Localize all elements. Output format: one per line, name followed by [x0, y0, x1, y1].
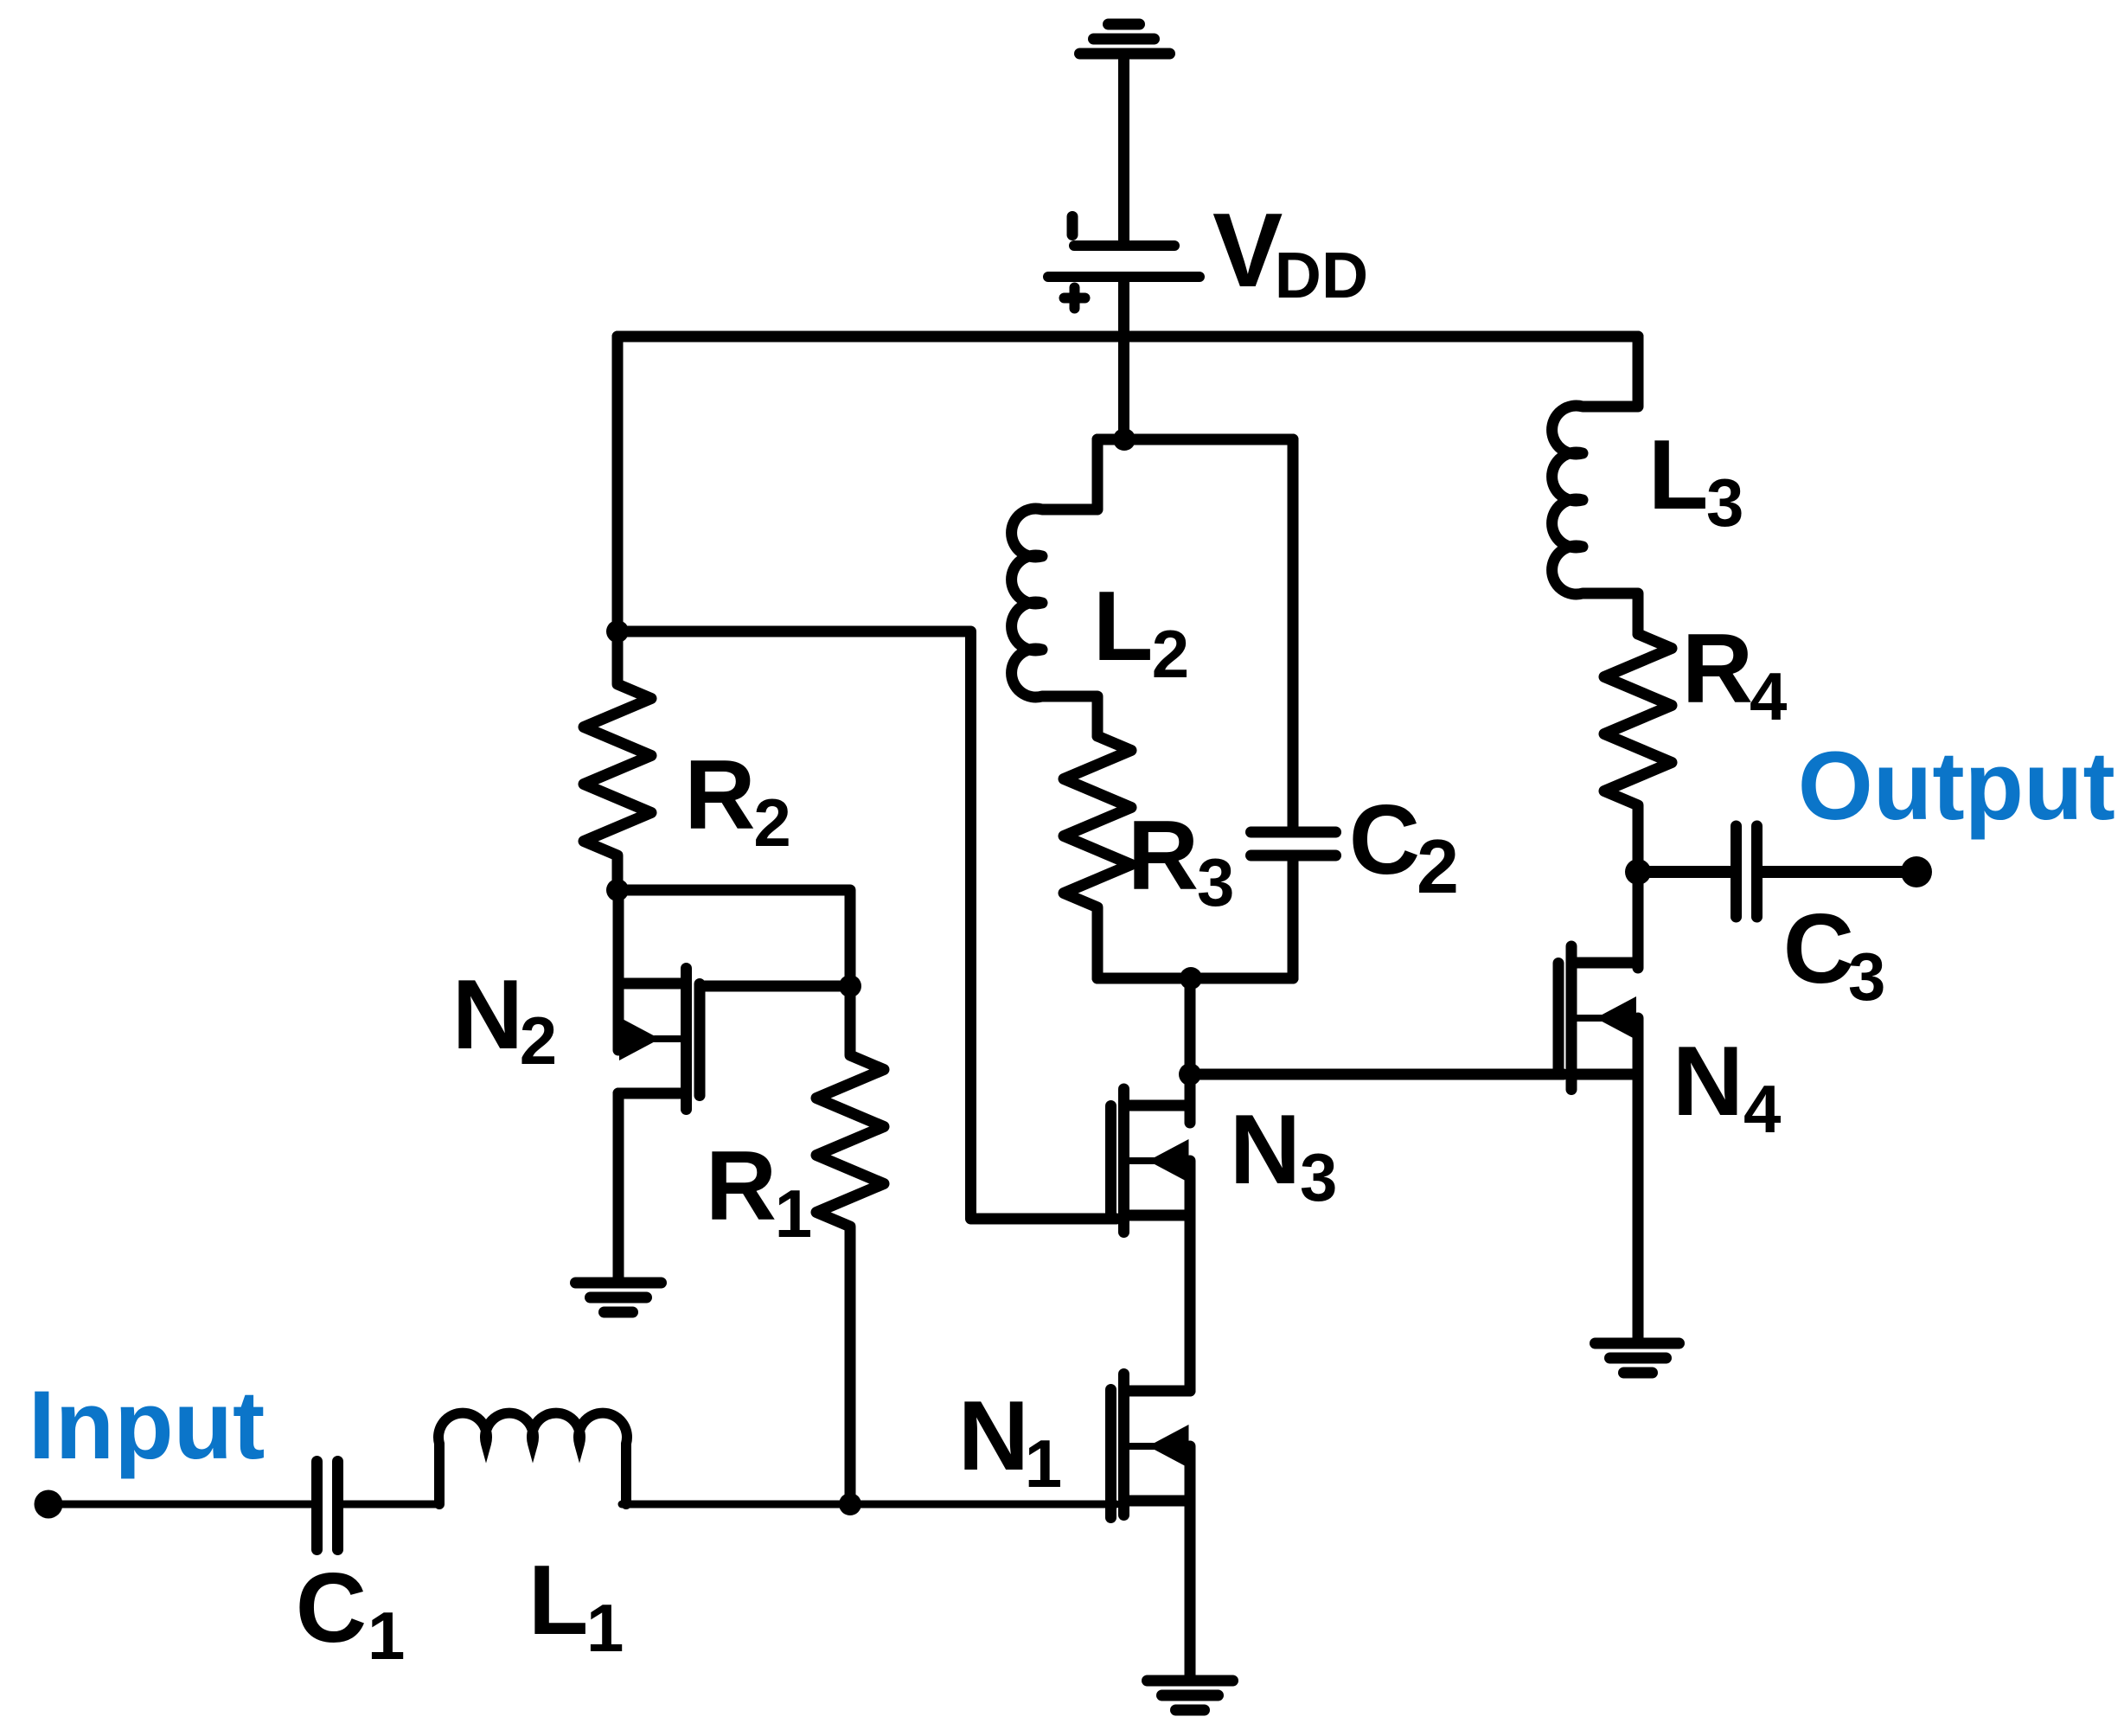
wire N2 gate loop — [617, 890, 850, 986]
ground (N1 source) — [1148, 1681, 1233, 1710]
svg-text:3: 3 — [1706, 464, 1743, 541]
wire C1 to L1 — [342, 1501, 438, 1509]
svg-text:R: R — [1128, 801, 1199, 911]
wire tank top — [1097, 434, 1293, 445]
svg-text:L: L — [1648, 420, 1709, 530]
inductor L3 — [1552, 336, 1638, 634]
wire tank bottom — [1097, 973, 1293, 984]
node N3 drain — [1179, 1063, 1201, 1086]
node tank top — [1113, 428, 1136, 451]
output terminal — [1901, 856, 1932, 887]
ground (N4 source) — [1596, 1343, 1679, 1373]
wire node A to N3 gate — [617, 631, 1116, 1219]
svg-text:3: 3 — [1848, 938, 1885, 1015]
resistor R4 — [1604, 634, 1672, 872]
battery VDD — [1048, 217, 1200, 309]
wire C3 to output — [1762, 866, 1916, 878]
svg-text:3: 3 — [1300, 1139, 1337, 1215]
transistor N3 — [1111, 978, 1191, 1233]
svg-text:1: 1 — [368, 1598, 405, 1674]
svg-text:N: N — [1230, 1095, 1301, 1205]
N3 body arrow — [1148, 1139, 1189, 1182]
capacitor C1 — [317, 1462, 338, 1550]
ground (top power ground, inverted) — [1080, 24, 1170, 242]
N1 body arrow — [1148, 1425, 1189, 1468]
resistor R1 — [816, 986, 884, 1504]
svg-text:R: R — [684, 740, 755, 850]
svg-text:C: C — [1349, 785, 1420, 895]
input terminal — [35, 1490, 63, 1519]
svg-text:4: 4 — [1743, 1071, 1781, 1147]
node tank bottom — [1180, 967, 1202, 990]
wire L1 to N1 gate — [622, 1501, 1116, 1509]
ground (N2 source) — [576, 1283, 662, 1312]
transistor N2 (mirrored NMOS) — [618, 890, 700, 1283]
svg-text:R: R — [706, 1131, 777, 1241]
wire top rail — [617, 331, 1638, 343]
svg-text:3: 3 — [1197, 844, 1234, 920]
node A — [606, 620, 629, 643]
svg-text:C: C — [1783, 894, 1854, 1004]
wire N3 source to N1 drain — [1185, 1161, 1196, 1391]
wire N3 drain to N4 gate — [1190, 1069, 1564, 1080]
svg-text:V: V — [1212, 191, 1283, 309]
inductor L2 — [1012, 439, 1124, 736]
N2 body arrow — [619, 1017, 660, 1060]
svg-text:C: C — [296, 1553, 367, 1663]
wire junction to C3 — [1638, 866, 1731, 878]
wire N4 drain — [1633, 872, 1644, 968]
svg-text:Output: Output — [1798, 732, 2115, 840]
svg-text:R: R — [1682, 614, 1753, 724]
svg-text:N: N — [452, 960, 523, 1070]
inductor L1 — [438, 1413, 627, 1504]
capacitor C2 — [1251, 832, 1336, 855]
wire C2 branch upper — [1288, 439, 1299, 826]
svg-text:2: 2 — [1152, 616, 1189, 692]
svg-text:2: 2 — [520, 1003, 557, 1079]
node R4/C3 — [1625, 859, 1651, 885]
svg-text:1: 1 — [586, 1590, 624, 1666]
transistor N4 — [1558, 946, 1638, 1343]
svg-text:DD: DD — [1275, 239, 1368, 311]
node B — [606, 879, 629, 901]
svg-text:L: L — [1093, 572, 1154, 682]
capacitor C3 — [1737, 826, 1757, 917]
transistor N1 — [1111, 1374, 1191, 1682]
wire to N2 gate — [702, 981, 850, 992]
wire C2 branch lower — [1288, 862, 1299, 978]
node R1 top — [839, 975, 861, 997]
wire battery to rail to tank top — [1118, 282, 1129, 439]
wire input to C1 — [48, 1501, 312, 1509]
resistor R3 — [1064, 736, 1131, 978]
node input/R1 — [839, 1493, 861, 1515]
svg-text:L: L — [528, 1546, 589, 1656]
svg-text:1: 1 — [1025, 1425, 1062, 1502]
svg-text:4: 4 — [1750, 658, 1787, 734]
svg-text:Input: Input — [29, 1371, 265, 1479]
wire rail left drop to node A — [612, 336, 624, 631]
svg-text:2: 2 — [753, 785, 790, 861]
svg-text:N: N — [958, 1381, 1029, 1491]
svg-text:N: N — [1673, 1027, 1743, 1137]
wire tank to N3 drain — [1185, 978, 1196, 1074]
svg-text:2: 2 — [1417, 823, 1459, 909]
svg-text:1: 1 — [775, 1175, 812, 1252]
N4 body arrow — [1596, 996, 1636, 1040]
resistor R2 — [584, 631, 651, 890]
